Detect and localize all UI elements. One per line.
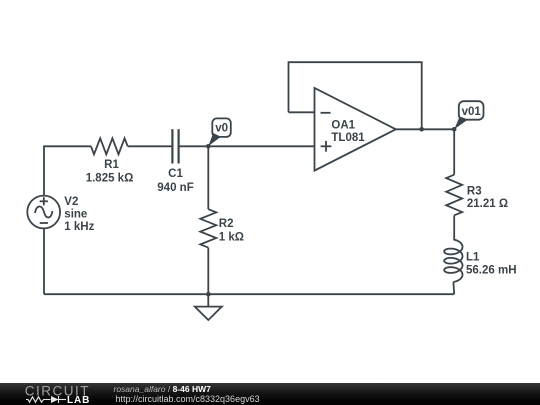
node v01 label box: [459, 101, 484, 120]
wire node v0 to op-amp plus input: [208, 145, 314, 147]
svg-text:TL081: TL081: [331, 132, 365, 144]
junction dot node v01: [452, 127, 457, 132]
wire R3 to L1: [453, 215, 455, 239]
wire R2 to bottom rail: [207, 248, 209, 295]
inductor L1 coil: [444, 240, 462, 283]
svg-text:V2: V2: [64, 196, 78, 208]
svg-text:940 nF: 940 nF: [157, 182, 193, 194]
node v0 pointer tail: [208, 133, 221, 146]
V2 sine waveform: [35, 206, 53, 217]
node v01 pointer tail: [454, 117, 468, 130]
svg-text:R1: R1: [104, 159, 119, 171]
svg-text:1 kHz: 1 kHz: [64, 221, 94, 233]
voltage source V2 circle: [27, 196, 60, 229]
svg-text:LAB: LAB: [67, 395, 90, 405]
op-amp plus sign: [321, 145, 332, 147]
svg-text:56.26 mH: 56.26 mH: [466, 264, 517, 276]
svg-text:1 kΩ: 1 kΩ: [219, 231, 244, 243]
capacitor C1 plates: [172, 129, 178, 163]
resistor R2: [200, 209, 216, 247]
svg-text:OA1: OA1: [331, 119, 355, 131]
svg-text:R3: R3: [467, 186, 482, 198]
wire L1 to bottom rail: [452, 282, 455, 294]
svg-text:sine: sine: [64, 209, 87, 221]
svg-text:C1: C1: [168, 168, 183, 180]
wire R1 to C1: [128, 145, 172, 147]
ground stub: [207, 294, 209, 306]
svg-text:21.21 Ω: 21.21 Ω: [467, 198, 508, 210]
logo diode triangle: [51, 396, 59, 403]
svg-text:L1: L1: [466, 252, 480, 264]
bottom rail wire: [44, 293, 454, 295]
logo resistor zigzag: [26, 396, 66, 403]
footer line 2: url: [116, 395, 260, 404]
op-amp OA1 triangle: [315, 88, 396, 171]
svg-text:1.825 kΩ: 1.825 kΩ: [86, 172, 134, 184]
svg-text:R2: R2: [219, 218, 234, 230]
junction dot ground: [206, 292, 211, 297]
wire C1 to node v0: [179, 145, 209, 147]
ground triangle: [195, 307, 222, 320]
op-amp minus sign: [321, 112, 331, 114]
junction dot feedback-output: [419, 127, 424, 132]
wire node v01 down to R3: [453, 129, 455, 174]
footer bar: [0, 383, 540, 405]
CircuitLab logo: [0, 383, 110, 405]
wire V2 top to R1: [44, 146, 91, 195]
feedback wire: [289, 62, 422, 129]
junction dot node v0: [206, 144, 211, 149]
svg-text:v01: v01: [462, 106, 482, 118]
wire inverting input stub: [289, 111, 315, 113]
V2 plus sign: [40, 200, 48, 202]
node v0 label box: [212, 118, 231, 136]
output wire: [396, 128, 454, 130]
resistor R3: [446, 175, 462, 216]
resistor R1: [91, 138, 128, 154]
wire node v0 down to R2: [207, 146, 209, 209]
svg-text:v0: v0: [215, 123, 228, 135]
footer line 1: user / title: [114, 385, 211, 394]
V2 minus sign: [40, 222, 48, 224]
wire V2 bottom down: [43, 228, 45, 294]
